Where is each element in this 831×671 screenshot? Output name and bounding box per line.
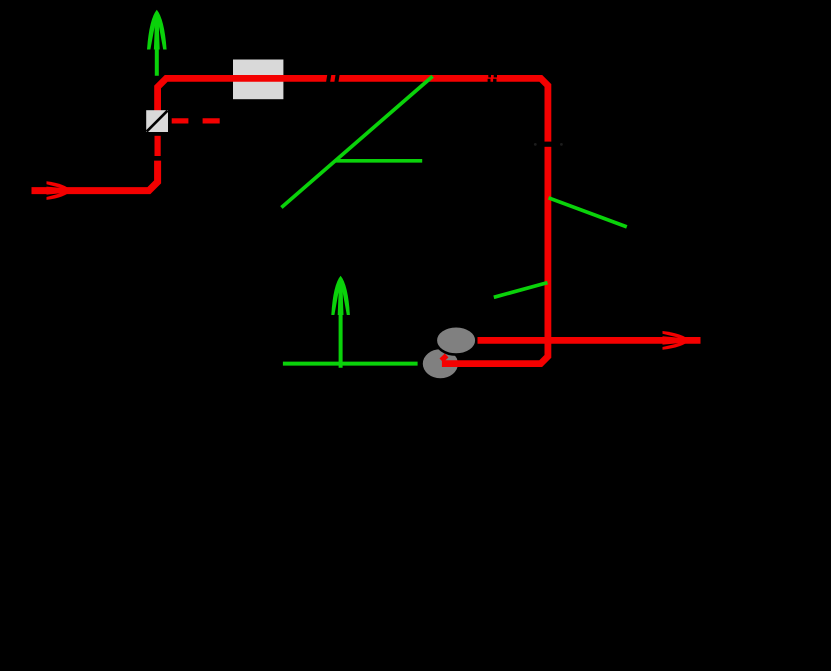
faint crossing-line end dots — [534, 143, 537, 146]
modulator box (EOM) — [233, 60, 283, 100]
PBS cube — [146, 110, 168, 132]
input beam arrowhead — [47, 181, 72, 200]
green horizontal mid line — [335, 159, 423, 163]
PBS diagonal — [147, 111, 168, 132]
green beam up out of top bend (shaft) — [155, 13, 159, 76]
input beam (red, from left, bends up) — [32, 161, 158, 191]
bottom green baseline — [283, 362, 418, 366]
output beam arrowhead — [663, 331, 690, 350]
small arrowhead into fiber lens — [441, 355, 446, 360]
bottom green arrowhead — [331, 276, 350, 315]
green top arrowhead — [147, 10, 167, 50]
long green diagonal (grating) — [281, 76, 432, 207]
beam break mark slashes at x~330 — [326, 71, 340, 85]
black crossing line gap on right vertical beam — [543, 142, 555, 147]
beam break mark slashes at x~492 — [488, 74, 497, 82]
fiber coupler lens L2 (lower-left ellipse) — [423, 349, 458, 378]
output beam (red, to photodiode, rightward) — [478, 337, 701, 344]
main beam: up from PBS, top run, right vertical, bottom run to lens — [158, 78, 548, 363]
fiber coupler lens L1 (upper ellipse) — [436, 326, 477, 354]
green diagonal off right vertical (lower) — [494, 283, 548, 298]
bottom green arrow shaft — [339, 280, 343, 368]
green diagonal off right vertical (upper) — [549, 198, 627, 227]
weak beam dash below PBS — [155, 136, 161, 156]
weak reflected beam dashes right of PBS — [172, 118, 220, 123]
